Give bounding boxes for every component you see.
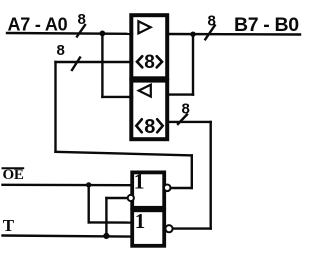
svg-text:OE: OE [3, 167, 24, 183]
svg-text:1: 1 [135, 209, 146, 233]
svg-text:T: T [3, 216, 15, 235]
svg-text:8: 8 [182, 101, 190, 118]
svg-text:8: 8 [144, 116, 155, 138]
svg-text:A7 - A0: A7 - A0 [8, 14, 68, 34]
svg-text:B7 - B0: B7 - B0 [234, 14, 299, 36]
svg-text:8: 8 [144, 52, 155, 73]
svg-text:8: 8 [208, 12, 216, 29]
svg-text:8: 8 [57, 42, 65, 59]
svg-text:1: 1 [134, 168, 145, 193]
svg-text:8: 8 [78, 11, 86, 28]
